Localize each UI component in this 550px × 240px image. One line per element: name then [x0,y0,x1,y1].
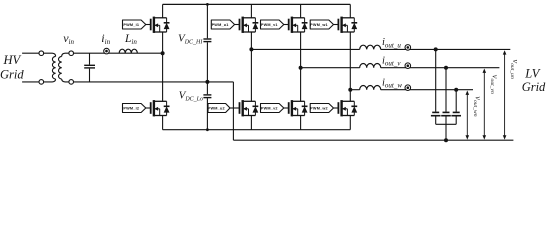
node phase u cap tap [434,47,438,51]
wire DC-link string [206,4,208,129]
label V_DC_Hi [178,32,203,45]
wire Q4H drain [349,4,351,17]
transformer primary winding [44,53,56,82]
label i_in [101,31,110,46]
transistor Q4L [338,100,357,116]
inductor L_out_u [360,45,381,49]
gate tag PWM_v1 [261,20,284,29]
transistor Q3L [289,100,308,116]
current probe i_out_u [405,45,411,51]
inductor L_out_v [360,63,381,67]
wire Q2H drain [250,4,252,17]
svg-text:PWM_v1: PWM_v1 [261,23,278,27]
gate tag PWM_v2 [261,104,284,113]
wire phase v right [381,67,500,69]
current probe i_in [104,48,110,54]
current probe i_out_w [405,85,411,91]
wire Q2L source [250,116,252,130]
wire Q4L source [349,116,351,130]
wire HV top stub [22,52,39,54]
node phase w cap tap [454,88,458,92]
svg-text:Grid: Grid [0,68,24,82]
svg-text:PWM_w1: PWM_w1 [310,23,328,27]
terminal secondary bottom [69,80,74,85]
wire phase v left [301,67,360,69]
wire leg2 phase [250,32,252,102]
label v_out_vn [489,75,500,94]
capacitor C_out_v [441,112,451,124]
label v_out_wn [472,96,483,116]
wire cap bank to neutral [445,124,447,140]
gate tag PWM_i1 [123,20,146,29]
svg-text:PWM_i1: PWM_i1 [123,23,139,27]
svg-text:Grid: Grid [522,80,546,94]
wire leg3 phase [300,32,302,102]
label V_DC_Lo [179,90,203,103]
node DC top tee [206,3,209,6]
wire Q1H drain [162,4,164,17]
svg-text:PWM_w2: PWM_w2 [310,106,328,110]
node leg3 tap [299,66,303,70]
label L_in [124,33,137,46]
wire Q1L source [162,116,164,130]
gate tag PWM_w2 [310,104,333,113]
transformer secondary winding [59,53,69,82]
svg-text:HV: HV [2,53,21,67]
node neutral cap tee [444,138,448,142]
svg-text:PWM_u2: PWM_u2 [208,106,225,110]
label i_out_u [382,37,401,49]
wire phase w right [381,89,473,91]
wire Q1L gate [146,107,151,109]
wire Q2L gate [230,107,240,109]
wire Q4H gate [334,24,339,26]
measurement v_out_wn [466,91,470,140]
gate tag PWM_u1 [211,20,234,29]
capacitor V_DC_Hi [203,39,211,42]
wire leg4 phase [349,32,351,102]
wire Q3L source [300,116,302,130]
wire phase w left [350,89,359,91]
wire cap bank bus [436,123,457,125]
transistor Q4H [338,17,357,33]
HV Grid label [0,53,24,81]
node leg2 tap [249,47,253,51]
transistor Q1L [151,100,170,116]
svg-text:PWM_i2: PWM_i2 [123,106,139,110]
inductor L_out_w [360,86,381,90]
wire Q2H gate [235,24,240,26]
wire cap bank drop u [435,49,437,111]
wire Q3H drain [300,4,302,17]
wire Q3H gate [284,24,289,26]
gate tag PWM_u2 [208,104,230,113]
label i_out_v [382,56,401,68]
wire phase u left [251,48,359,50]
wire Q3L gate [284,107,289,109]
label i_out_w [382,78,402,90]
wire input bottom [74,81,234,83]
transistor Q3H [289,17,308,33]
wire bottom rail [163,129,351,131]
capacitor V_DC_Lo [203,95,211,98]
node phase v cap tap [444,66,448,70]
node leg4 tap [348,88,352,92]
node leg1 tap [161,51,165,55]
node DC bottom tee [206,128,209,131]
measurement v_out_vn [483,69,487,140]
wire HV bottom stub [22,81,39,83]
terminal HV bottom [39,80,44,85]
capacitor C_in [84,53,95,82]
inductor L_in [119,49,137,53]
gate tag PWM_w1 [310,20,333,29]
label v_in [63,31,74,46]
transistor Q1H [151,17,170,33]
LV Grid label [522,67,546,94]
wire neutral drop [232,82,234,140]
capacitor C_out_u [431,112,441,124]
wire top rail [163,3,351,5]
wire phase u right [381,48,511,50]
transistor Q2H [240,17,259,33]
transistor Q2L [240,100,259,116]
wire neutral line [233,139,513,141]
wire input top [74,52,163,54]
capacitor C_out_w [451,112,461,124]
gate tag PWM_i2 [123,104,146,113]
terminal HV top [39,51,44,56]
wire leg1 phase [162,32,164,102]
svg-text:LV: LV [524,67,540,81]
svg-text:PWM_u1: PWM_u1 [212,23,229,27]
terminal secondary top [69,51,74,56]
wire Q4L gate [334,107,339,109]
current probe i_out_v [405,63,411,69]
svg-text:PWM_v2: PWM_v2 [261,106,278,110]
label v_out_un [509,60,520,79]
wire Q1H gate [146,24,151,26]
measurement v_out_un [503,50,507,139]
node DC midpoint [205,80,209,84]
wire cap bank drop w [455,90,457,112]
wire cap bank drop v [445,68,447,112]
